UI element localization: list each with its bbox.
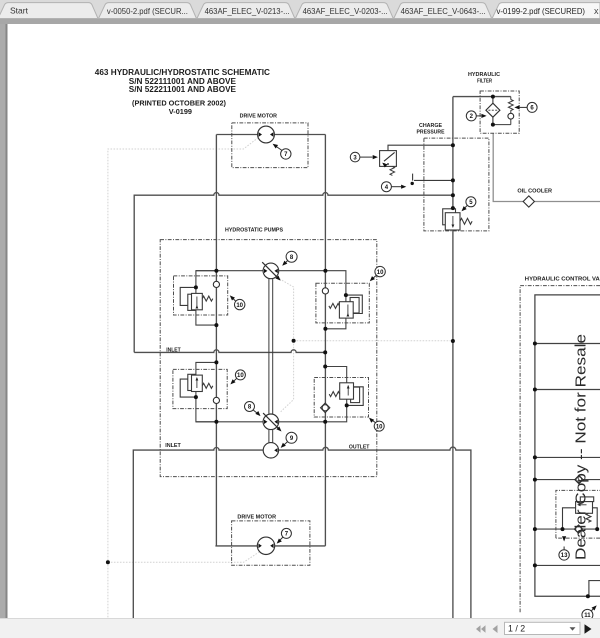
node cv 343 (533, 342, 537, 346)
prev-page button (493, 625, 498, 633)
hydrostatic pumps label (225, 227, 283, 233)
wire cv check line y529 (535, 528, 597, 530)
svg-text:FILTER: FILTER (477, 79, 492, 85)
wire filter feed horizontal y96 (453, 96, 511, 98)
wire inlet-2 line y450 left (133, 448, 263, 619)
svg-text:CHARGE: CHARGE (419, 123, 442, 129)
svg-text:(PRINTED OCTOBER 2002): (PRINTED OCTOBER 2002) (132, 100, 226, 107)
wire cv port y457 (535, 456, 600, 458)
svg-text:10: 10 (376, 424, 383, 430)
wire BR valve bottom return (325, 399, 347, 422)
check valve CV2 (574, 525, 582, 533)
tab 463AF_ELEC_V-0203 (295, 3, 393, 19)
wire solenoid feed (388, 145, 453, 150)
check valve TL (213, 281, 219, 287)
relief valve BL body (180, 374, 213, 397)
node pump2 left (214, 420, 218, 424)
svg-text:DRIVE MOTOR: DRIVE MOTOR (237, 514, 276, 520)
wire pump1 right branch to TR valve (279, 271, 346, 302)
svg-text:Start: Start (10, 6, 29, 16)
gray servo drain line left loop (108, 138, 259, 618)
wire cv port y389 (535, 389, 600, 391)
wire top motor loop right vertical (324, 135, 326, 546)
relief valve TL dashed box (174, 276, 228, 315)
svg-text:PRESSURE: PRESSURE (417, 130, 445, 136)
node cv 389 (533, 388, 537, 392)
callout 10 BL (229, 370, 245, 386)
tab bar background (0, 0, 600, 24)
svg-text:10: 10 (237, 373, 244, 379)
oil cooler gray line (493, 133, 600, 201)
node servo sense (451, 339, 455, 343)
drive motor bottom label (237, 514, 276, 520)
node BR feed (323, 365, 327, 369)
svg-text:1 / 2: 1 / 2 (508, 623, 525, 633)
callout 13 (559, 536, 569, 560)
wire cv port y343 (535, 343, 600, 345)
svg-text:v-0050-2.pdf (SECUR...: v-0050-2.pdf (SECUR... (107, 6, 188, 16)
node BR pilot (345, 403, 349, 407)
drive motor top label (240, 113, 277, 119)
filter element F1 (486, 97, 500, 125)
pump P1 (262, 262, 282, 282)
wire TL valve bottom return (196, 310, 217, 325)
relief valve BR dashed box (314, 378, 368, 418)
svg-text:OUTLET: OUTLET (349, 444, 370, 450)
wire pump2 right branch (279, 421, 326, 423)
node pump1 left (214, 269, 218, 273)
node inlet1 end (323, 350, 327, 354)
wire top motor loop left vertical (215, 135, 217, 546)
callout 10 BR (368, 416, 385, 431)
gray charge sense dotted line (294, 340, 453, 342)
wire BL valve feed (196, 362, 217, 375)
callout 9 (279, 432, 297, 449)
svg-text:463AF_ELEC_V-0643-...: 463AF_ELEC_V-0643-... (401, 6, 486, 16)
node cv 457 (533, 455, 537, 459)
charge pressure label (417, 123, 445, 136)
oil cooler label (517, 188, 552, 194)
wire inlet-1 line y352 with hops (134, 350, 325, 353)
hydraulic control valve label (525, 276, 600, 282)
svg-text:Dealer Copy -- Not for Resale: Dealer Copy -- Not for Resale (573, 334, 590, 560)
callout 7 top (271, 142, 291, 159)
svg-text:OIL COOLER: OIL COOLER (517, 188, 552, 194)
wire TL valve feed (196, 271, 217, 294)
relief valve TR dashed box (316, 283, 369, 323)
label INLET top (166, 347, 181, 353)
wire top motor horizontal (216, 134, 325, 136)
svg-text:HYDRAULIC: HYDRAULIC (468, 72, 500, 78)
oil cooler HX1 (523, 196, 534, 207)
callout 3 (350, 152, 378, 162)
svg-text:V-0199: V-0199 (169, 109, 192, 116)
hydraulic filter dashed box (480, 91, 519, 133)
pump shaft double line (269, 279, 273, 443)
node cv 565 (533, 563, 537, 567)
gray pump servo linkage (277, 277, 294, 412)
relief valve 13 dashed box (556, 490, 600, 538)
tab 463AF_ELEC_V-0643 (394, 3, 492, 19)
node cv bottom (586, 594, 590, 598)
node filter top (491, 95, 495, 99)
svg-text:463 HYDRAULIC/HYDROSTATIC SCHE: 463 HYDRAULIC/HYDROSTATIC SCHEMATIC (95, 68, 270, 77)
callout 2 (466, 111, 486, 121)
node drain bottom (106, 560, 110, 564)
drive motor bottom dashed box (232, 521, 310, 565)
solenoid valve 3 (380, 151, 397, 168)
relief valve TL body (180, 287, 213, 310)
charge pressure dashed box (424, 138, 489, 231)
callout 8 top (281, 251, 297, 267)
page number box 1 / 2 (505, 622, 581, 634)
bottom toolbar (0, 619, 600, 638)
wire outlet line y450 right (279, 447, 471, 618)
svg-text:S/N 522211001 AND ABOVE: S/N 522211001 AND ABOVE (129, 85, 237, 94)
check valve CV1 (575, 475, 583, 483)
callout 5 (460, 197, 476, 213)
node v13 right (595, 527, 599, 531)
relief valve BL dashed box (173, 369, 227, 408)
wire BR valve feed (325, 367, 347, 383)
wire TR valve bottom return (325, 318, 346, 329)
node valve5 top (451, 206, 455, 210)
check valve BL (213, 397, 219, 403)
hydraulic control valve dashed box (520, 286, 600, 613)
callout 6 (514, 102, 537, 112)
node cv 529 (533, 527, 537, 531)
tab 463AF_ELEC_V-0213 (197, 3, 295, 19)
wire pump1 left branch (196, 270, 263, 272)
node TL return (214, 323, 218, 327)
node return y195 (451, 193, 455, 197)
drive motor top dashed box (232, 123, 308, 168)
node solenoid line (451, 143, 455, 147)
drive motor top M1 (258, 126, 275, 143)
filter bypass check valve (493, 97, 513, 125)
charge pump P3 (263, 443, 278, 458)
title block (95, 68, 270, 116)
svg-text:463AF_ELEC_V-0203-...: 463AF_ELEC_V-0203-... (303, 6, 388, 16)
callout 4 (381, 182, 406, 192)
svg-text:13: 13 (561, 553, 568, 559)
pump P2 (263, 413, 283, 433)
wire cv port y565 (535, 564, 600, 566)
svg-text:10: 10 (236, 303, 243, 309)
node servo left (292, 339, 296, 343)
node pump2 right (323, 420, 327, 424)
control valve inner body outline (535, 295, 600, 596)
label INLET bottom (165, 443, 181, 449)
svg-text:INLET: INLET (165, 443, 181, 449)
svg-text:HYDROSTATIC PUMPS: HYDROSTATIC PUMPS (225, 227, 283, 233)
pressure switch 4 (413, 174, 453, 181)
hydrostatic pumps dashed box (160, 240, 377, 477)
callout 8 bottom (245, 402, 262, 418)
cv bottom step (589, 581, 600, 597)
callout 10 TL (228, 294, 245, 310)
wire cv port y479 with check (535, 479, 600, 481)
node BL feed (214, 360, 218, 364)
wire BL valve bottom return (196, 392, 217, 422)
relief valve 13 body (563, 497, 598, 529)
svg-text:HYDRAULIC CONTROL VALVE: HYDRAULIC CONTROL VALVE (525, 276, 600, 282)
tab v-0199-2.pdf (SECURED) active (492, 3, 600, 19)
svg-text:INLET: INLET (166, 347, 181, 353)
svg-text:10: 10 (377, 270, 384, 276)
svg-text:463AF_ELEC_V-0213-...: 463AF_ELEC_V-0213-... (205, 6, 290, 16)
node TL pilot (194, 285, 198, 289)
callout 7 bottom (275, 528, 291, 545)
label OUTLET (349, 444, 370, 450)
wire bottom motor horizontal (215, 545, 325, 547)
wire pump2 left branch (196, 421, 263, 423)
tab v-0050-2.pdf (99, 3, 197, 19)
svg-text:v-0199-2.pdf (SECURED): v-0199-2.pdf (SECURED) (497, 6, 586, 16)
hydraulic filter label (468, 72, 500, 85)
drive motor bottom M2 (257, 537, 274, 554)
node BL pilot (194, 395, 198, 399)
tab Start (0, 3, 98, 19)
check valve TR (322, 288, 328, 294)
solenoid spring (390, 166, 395, 175)
node TR pilot (344, 293, 348, 297)
node v13 left (561, 527, 565, 531)
relief valve BR body (329, 383, 363, 406)
svg-text:DRIVE MOTOR: DRIVE MOTOR (240, 113, 277, 119)
wire charge/filter vertical x453 (452, 97, 454, 618)
svg-text:x: x (594, 6, 599, 16)
charge relief valve 5 (443, 209, 472, 230)
node TR return (323, 327, 327, 331)
node cv 479 (533, 478, 537, 482)
first-page button (476, 625, 486, 633)
callout 10 TR (368, 266, 385, 282)
node pump1 right (323, 269, 327, 273)
node switch line (451, 178, 455, 182)
dealer copy watermark (573, 334, 590, 560)
relief valve TR body (329, 295, 362, 318)
next-page button (585, 624, 592, 633)
node filter bottom (491, 123, 495, 127)
wire return line y195 with hops (134, 193, 453, 353)
callout 11 (582, 604, 598, 620)
check valve BR (321, 403, 330, 413)
